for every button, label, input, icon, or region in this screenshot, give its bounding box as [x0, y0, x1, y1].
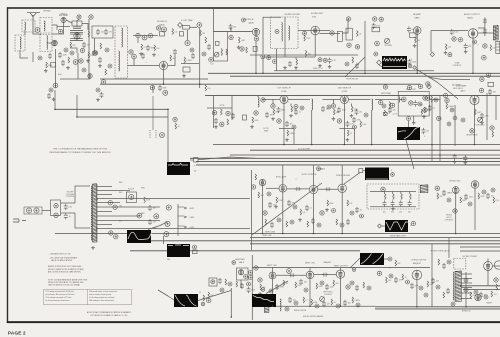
component box deemphasis: [337, 31, 342, 41]
selenium rectifier: [129, 194, 134, 199]
resistor: [291, 106, 293, 112]
svg-text:1 MEG: 1 MEG: [447, 193, 453, 195]
terminal: [294, 301, 298, 305]
wire secondary lead: [97, 220, 160, 222]
wire: [416, 280, 418, 307]
terminal: [207, 298, 211, 302]
wire: [263, 16, 281, 18]
svg-text:FROM POINT INDICATED TO CHASSI: FROM POINT INDICATED TO CHASSIS GND: [48, 281, 84, 284]
wire: [230, 27, 232, 32]
resistor discriminator: [393, 194, 395, 200]
svg-text:VALUE OF APPLICATIONS: VALUE OF APPLICATIONS: [51, 259, 73, 262]
svg-text:RECEIVER MAKES IT POSSIBLE TO: RECEIVER MAKES IT POSSIBLE TO BRING YOU …: [49, 151, 111, 154]
svg-text:100: 100: [174, 31, 177, 33]
terminal: [451, 302, 455, 306]
capacitor C4: [82, 42, 86, 48]
wire: [94, 38, 96, 52]
terminal: [411, 221, 415, 225]
transformer T1 mixer: [72, 21, 82, 29]
terminal: [391, 173, 395, 177]
wire B+ 140 line: [213, 144, 500, 146]
terminal: [461, 118, 465, 122]
capacitor: [337, 107, 341, 113]
wire: [76, 95, 78, 117]
resistor R86: [295, 282, 297, 288]
terminal: [418, 102, 422, 106]
wire: [158, 290, 168, 296]
wire: [495, 26, 497, 40]
resistor: [347, 130, 349, 136]
svg-text:SOUND DET: SOUND DET: [311, 13, 324, 15]
terminal: [317, 167, 321, 171]
svg-text:8: 8: [390, 268, 391, 270]
wire pointer: [406, 140, 414, 169]
wire: [279, 128, 294, 130]
svg-text:.001: .001: [101, 32, 104, 34]
capacitor C7: [96, 29, 100, 35]
diode plate: [244, 275, 248, 279]
terminal: [137, 213, 142, 218]
ground: [391, 207, 395, 210]
terminal: [108, 64, 112, 68]
wire junction: [282, 233, 284, 235]
capacitor C45: [428, 105, 432, 111]
wire: [474, 105, 476, 145]
capacitor: [345, 121, 349, 127]
resistor R9b: [105, 69, 107, 75]
resistor R92: [352, 297, 354, 303]
resistor R11: [154, 45, 156, 51]
terminal: [202, 52, 206, 56]
wire: [413, 116, 415, 121]
terminal: [101, 80, 106, 85]
resistor R15: [184, 57, 186, 63]
capacitor: [346, 219, 350, 225]
wire: [63, 23, 65, 30]
resistor R43: [360, 121, 362, 127]
resistor R12: [172, 29, 174, 35]
terminal: [434, 98, 438, 102]
coil L14 input: [258, 97, 259, 107]
terminal: [482, 55, 487, 60]
svg-text:HORIZ OSC: HORIZ OSC: [449, 181, 461, 183]
svg-text:SOUND IF: SOUND IF: [157, 21, 168, 23]
tube V22 damper: [475, 294, 481, 300]
tube V7 AF amp: [413, 27, 421, 35]
wire: [474, 188, 476, 230]
wire junction: [96, 198, 98, 200]
capacitor C72: [305, 205, 309, 211]
svg-text:.0047: .0047: [205, 298, 209, 300]
wire junction: [199, 83, 201, 85]
terminal: [113, 205, 117, 209]
terminal: [494, 278, 498, 282]
resistor R85: [283, 280, 285, 286]
svg-text:100: 100: [302, 212, 305, 214]
wire cathode bus: [250, 54, 358, 56]
tube V2 mixer: [52, 40, 58, 46]
capacitor: [289, 273, 295, 277]
svg-text:.001: .001: [260, 195, 263, 197]
wire: [96, 184, 98, 242]
svg-text:150: 150: [359, 112, 362, 114]
terminal: [247, 282, 251, 286]
wire plate: [313, 165, 315, 185]
waveform photo W6 solid: [365, 168, 389, 181]
resistor R5: [70, 42, 72, 48]
wire: [187, 30, 189, 40]
terminal: [458, 38, 462, 42]
wire: [339, 268, 341, 270]
transformer T5 vert output: [265, 299, 269, 313]
terminal: [381, 187, 385, 191]
terminal: [293, 205, 297, 209]
wire: [55, 108, 168, 110]
capacitor C62 filter: [148, 205, 152, 211]
wire heater line: [55, 233, 500, 235]
test point TP2: [377, 60, 382, 65]
terminal: [197, 23, 202, 28]
resistor: [273, 109, 275, 115]
svg-text:SWS 1,7,+2: SWS 1,7,+2: [313, 68, 323, 70]
terminal: [209, 57, 214, 62]
svg-text:6BQ6GT: 6BQ6GT: [413, 263, 422, 265]
wire junction: [416, 73, 418, 75]
capacitor: [277, 107, 281, 113]
svg-text:2.2: 2.2: [310, 208, 312, 210]
resistor R23: [246, 47, 248, 53]
capacitor C100: [394, 277, 398, 283]
border bottom: [7, 321, 500, 323]
terminal: [468, 202, 472, 206]
terminal: [407, 117, 411, 121]
wire: [252, 305, 375, 307]
tube V18 vert output: [336, 270, 344, 278]
capacitor C91: [343, 300, 347, 306]
capacitor C105: [479, 292, 483, 298]
terminal: [346, 285, 350, 289]
wire junction: [96, 228, 98, 230]
terminal: [377, 271, 381, 275]
wire junction: [311, 144, 313, 146]
terminal: [435, 186, 439, 190]
wire secondary lead: [97, 211, 112, 213]
terminal: [232, 261, 236, 265]
terminal: [323, 58, 327, 62]
svg-text:MODEL 16K11B: MODEL 16K11B: [294, 310, 307, 312]
resistor R21: [221, 49, 223, 56]
terminal: [447, 122, 451, 126]
wire: [384, 258, 388, 260]
capacitor C38: [483, 18, 487, 24]
wire junction: [231, 316, 233, 318]
component box: [160, 32, 165, 37]
svg-text:6BQ7: 6BQ7: [61, 14, 67, 16]
resistor: [438, 259, 440, 265]
capacitor discriminator: [399, 200, 403, 206]
svg-text:6CB6: 6CB6: [281, 91, 287, 93]
wire: [66, 20, 72, 23]
terminal: [261, 288, 265, 292]
ground: [294, 66, 298, 69]
svg-text:9: 9: [424, 136, 425, 138]
wire yoke lead: [428, 77, 470, 80]
wire: [272, 268, 274, 273]
ground: [325, 208, 329, 211]
svg-text:1500: 1500: [454, 32, 458, 34]
terminal: [375, 41, 380, 46]
ground: [412, 121, 416, 124]
terminal: [352, 268, 356, 272]
wire: [262, 186, 264, 234]
terminal: [190, 48, 194, 52]
capacitor discriminator: [408, 200, 412, 206]
terminal: [251, 185, 255, 189]
wire: [290, 104, 292, 107]
wire: [455, 194, 457, 234]
capacitor C79: [486, 193, 490, 199]
terminal: [129, 50, 133, 54]
resistor: [336, 219, 338, 225]
terminal: [201, 302, 205, 306]
tube V8 audio output 6AQ5: [468, 29, 478, 39]
resistor R8: [68, 57, 70, 63]
component box line switch: [51, 200, 61, 216]
tube V11 sync amp: [279, 185, 287, 193]
ground: [318, 64, 322, 67]
capacitor C2: [58, 52, 62, 58]
svg-text:COPYRIGHT BY HOWARD W. SAMS: COPYRIGHT BY HOWARD W. SAMS & CO., INC.: [90, 314, 128, 317]
terminal: [452, 37, 456, 41]
terminal: [340, 223, 344, 227]
ground: [258, 292, 262, 295]
wire: [439, 96, 441, 162]
capacitor C31: [355, 63, 359, 69]
resistor R30: [357, 31, 359, 37]
ground: [44, 69, 48, 72]
antenna terminal strip: [150, 130, 156, 138]
terminal: [294, 105, 298, 109]
terminal: [271, 104, 275, 108]
terminal: [345, 62, 349, 66]
capacitor: [442, 263, 446, 269]
terminal: [453, 209, 457, 213]
terminal: [263, 211, 267, 215]
wire: [495, 96, 497, 120]
resistor: [287, 130, 289, 136]
svg-text:1 MEG: 1 MEG: [354, 300, 360, 302]
tube V14 horiz osc: [452, 187, 459, 194]
svg-text:15: 15: [199, 292, 201, 294]
terminal: [82, 68, 86, 72]
wire junction: [255, 73, 257, 75]
svg-text:LINE VOLTAGE AT 117V AC, NO SI: LINE VOLTAGE AT 117V AC, NO SIGNAL: [48, 284, 80, 287]
wire: [343, 103, 345, 144]
wire bus: [196, 164, 500, 166]
component box: [183, 67, 190, 72]
svg-text:.0047: .0047: [469, 197, 473, 199]
capacitor C61: [64, 213, 68, 219]
wire junction: [455, 233, 457, 235]
terminal: [424, 293, 428, 297]
wire secondary lead: [97, 198, 250, 200]
wire junction: [283, 144, 285, 146]
resistor R20: [239, 37, 241, 43]
svg-text:SYNC AMP: SYNC AMP: [276, 176, 287, 179]
terminal: [423, 108, 427, 112]
tube V9 video amp 6AC7: [470, 95, 479, 104]
shield box HV cage: [454, 259, 466, 270]
wire: [52, 30, 64, 34]
small connector: [194, 158, 199, 163]
component box input filter: [92, 26, 113, 38]
terminal: [228, 282, 232, 286]
wire junction: [341, 233, 343, 235]
terminal: [254, 266, 258, 270]
coil L15 interstage: [312, 99, 313, 110]
capacitor C73: [295, 187, 301, 191]
resistor R102: [427, 281, 429, 287]
resistor: [221, 109, 223, 115]
wire: [484, 18, 486, 37]
shield box discriminator transformer: [271, 17, 298, 49]
capacitor C77: [442, 190, 446, 196]
ground: [152, 53, 156, 56]
terminal: [352, 125, 356, 129]
svg-text:CONTROL: CONTROL: [324, 294, 332, 296]
wire: [70, 48, 77, 53]
svg-text:CONTROL: CONTROL: [453, 65, 462, 67]
wire pointer: [148, 222, 167, 230]
capacitor C86: [299, 279, 303, 285]
component box 4.5MC trap: [183, 26, 190, 30]
wire secondary lead: [97, 215, 140, 217]
svg-text:1500: 1500: [362, 124, 366, 126]
wire section: [251, 170, 253, 250]
resistor R87: [316, 283, 318, 289]
wire: [309, 279, 311, 306]
capacitor: [355, 285, 359, 291]
resistor R44: [384, 110, 386, 116]
terminal: [320, 211, 324, 215]
terminal: [220, 288, 224, 292]
waveform photo W2: [397, 127, 420, 140]
wire: [199, 28, 201, 88]
wire secondary lead: [97, 194, 112, 196]
terminal: [70, 51, 74, 55]
wire flyback lead: [461, 292, 472, 294]
svg-text:.01: .01: [299, 112, 301, 114]
capacitor: [354, 109, 358, 115]
capacitor C70: [268, 202, 272, 208]
wire pointer: [266, 281, 288, 294]
component box video detector: [398, 91, 429, 116]
svg-text:RESTORER: RESTORER: [381, 93, 392, 95]
svg-text:150: 150: [426, 131, 429, 133]
resistor R9a: [100, 43, 102, 49]
wire junction: [272, 305, 274, 307]
capacitor C51: [453, 154, 457, 160]
svg-text:HORIZ AFC: HORIZ AFC: [235, 258, 246, 261]
terminal: [258, 278, 262, 282]
coil L4 input: [25, 22, 26, 30]
svg-text:VERT OSC: VERT OSC: [305, 263, 316, 265]
terminal: [26, 208, 31, 213]
terminal: [419, 286, 423, 290]
terminal: [379, 17, 383, 21]
wire junction: [262, 233, 264, 235]
ground: [237, 46, 241, 49]
component box horiz AFC: [237, 268, 249, 280]
wire junction: [465, 306, 467, 308]
svg-text:.005: .005: [382, 212, 385, 214]
svg-text:SYNC CLIPPER: SYNC CLIPPER: [302, 174, 317, 176]
svg-text:1 MEG: 1 MEG: [289, 133, 295, 135]
resistor R22: [226, 49, 228, 55]
svg-text:.001: .001: [448, 47, 451, 49]
terminal: [346, 17, 350, 21]
component box tone control: [346, 28, 352, 40]
coil T3 primary: [91, 186, 92, 240]
wire: [152, 96, 154, 130]
terminal: [336, 304, 340, 308]
resistor R46: [389, 102, 391, 109]
svg-text:.001: .001: [386, 113, 389, 115]
svg-text:.047: .047: [436, 281, 439, 283]
wire junction: [309, 305, 311, 307]
wire junction: [371, 144, 373, 146]
wire junction: [54, 109, 56, 111]
wire junction: [364, 73, 366, 75]
resistor R97: [208, 292, 210, 298]
terminal: [287, 269, 292, 274]
terminal: [486, 73, 490, 77]
terminal: [347, 43, 351, 47]
wire junction: [439, 154, 441, 156]
ground: [346, 138, 350, 141]
wire: [52, 25, 57, 30]
wire coupling: [314, 274, 336, 276]
resistor R84: [260, 284, 262, 290]
wire: [163, 236, 165, 244]
svg-text:.05: .05: [350, 133, 352, 135]
wire: [272, 99, 274, 103]
wire: [448, 238, 450, 259]
capacitor C78: [464, 194, 468, 200]
terminal: [38, 56, 42, 60]
svg-text:YEL: YEL: [119, 206, 122, 208]
svg-text:+ NO LIMITS USE THE ALTERNATE: + NO LIMITS USE THE ALTERNATE: [49, 256, 78, 259]
terminal: [304, 288, 308, 292]
component box phase det: [209, 278, 217, 286]
terminal: [350, 211, 354, 215]
ground: [139, 52, 143, 55]
wire: [272, 279, 274, 306]
tube V17 vert amp: [306, 271, 314, 279]
wire: [190, 159, 194, 161]
wire sync takeoff diagonal: [252, 183, 322, 235]
resistor R47: [431, 96, 433, 102]
svg-text:4.5 MC TRAP: 4.5 MC TRAP: [181, 19, 193, 22]
terminal: [480, 77, 484, 81]
terminal: [136, 33, 140, 37]
terminal: [154, 214, 159, 219]
antenna: [27, 13, 40, 30]
svg-text:VIDEO AMP: VIDEO AMP: [456, 85, 467, 88]
wire discriminator: [370, 206, 416, 208]
ground: [413, 44, 417, 47]
terminal: [350, 281, 354, 285]
